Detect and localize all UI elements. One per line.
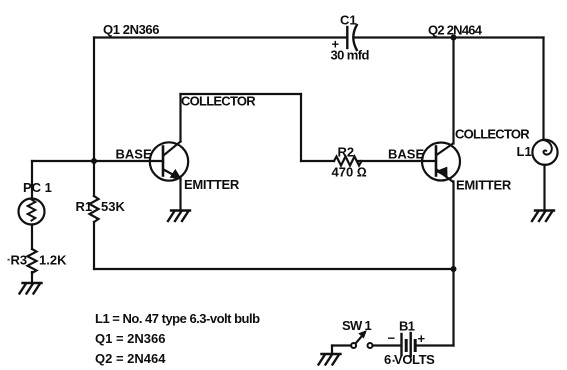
wire bottom rail xyxy=(94,268,454,270)
ground under lamp xyxy=(532,211,554,222)
svg-text:Q2 = 2N464: Q2 = 2N464 xyxy=(95,351,166,366)
ground under R3 xyxy=(20,283,42,294)
wire left rail (top corner down to base node) xyxy=(93,38,95,162)
stray scan mark xyxy=(8,259,10,261)
wire R1 upper lead xyxy=(93,161,95,196)
wire lamp lower lead xyxy=(543,165,545,209)
wire PC1 to R3 xyxy=(31,225,33,250)
wire Q2 emitter down to battery row xyxy=(452,182,454,346)
wire Q1 emitter lead xyxy=(179,179,181,210)
svg-text:1.2K: 1.2K xyxy=(39,253,67,268)
svg-text:B1: B1 xyxy=(399,319,415,334)
junction dot bottom rail / emitter rail xyxy=(451,266,457,272)
svg-text:EMITTER: EMITTER xyxy=(184,177,240,192)
svg-text:Q2 2N464: Q2 2N464 xyxy=(428,23,483,38)
wire switch ground stub xyxy=(331,346,333,354)
capacitor C1 xyxy=(347,25,357,50)
wire Q1 collector top run xyxy=(181,93,302,95)
wire Q1 base (from PC1 node to Q1) xyxy=(32,160,163,162)
svg-text:R1: R1 xyxy=(76,199,93,214)
wire Q2 collector riser xyxy=(452,38,454,144)
transistor Q2 xyxy=(422,143,460,182)
svg-text:Q1 = 2N366: Q1 = 2N366 xyxy=(95,331,165,346)
wire top rail right (C1 to right corner) xyxy=(354,36,544,38)
svg-text:L1: L1 xyxy=(517,144,532,159)
stray scan dot in 6 VOLTS xyxy=(393,360,395,362)
resistor R2 xyxy=(334,157,362,166)
svg-text:BASE: BASE xyxy=(116,147,152,162)
svg-text:−: − xyxy=(388,331,396,346)
wire R2 right lead (to Q2 base) xyxy=(357,160,436,162)
wire switch left lead xyxy=(332,344,351,346)
wire top rail left (Q1 top to C1) xyxy=(94,36,347,38)
wire Q1 collector riser xyxy=(179,94,181,142)
resistor R3 xyxy=(28,249,37,273)
svg-text:R3: R3 xyxy=(11,253,28,268)
svg-text:6 VOLTS: 6 VOLTS xyxy=(384,352,435,367)
svg-text:C1: C1 xyxy=(340,13,357,28)
svg-text:470 Ω: 470 Ω xyxy=(332,165,367,180)
wire right rail down to lamp xyxy=(542,38,544,141)
svg-text:EMITTER: EMITTER xyxy=(456,178,512,193)
lamp L1 xyxy=(532,140,557,165)
photocell PC1 xyxy=(19,199,45,225)
battery B1 xyxy=(402,333,416,356)
svg-text:PC 1: PC 1 xyxy=(23,180,52,195)
svg-text:30 mfd: 30 mfd xyxy=(331,48,370,63)
wire R1 lower lead xyxy=(93,222,95,269)
junction dot top rail / Q2 collector xyxy=(451,35,457,41)
ground under Q1 emitter xyxy=(168,211,190,222)
ground under switch xyxy=(319,354,341,365)
resistor R1 xyxy=(90,196,99,222)
junction dot Q1 base / left rail xyxy=(91,158,97,164)
svg-text:BASE: BASE xyxy=(388,147,424,162)
svg-text:SW 1: SW 1 xyxy=(342,318,371,333)
wire switch to battery xyxy=(373,344,400,346)
wire R2 left lead xyxy=(301,160,334,162)
svg-text:COLLECTOR: COLLECTOR xyxy=(181,94,256,109)
wire R3 lower lead xyxy=(31,272,33,282)
svg-text:Q1 2N366: Q1 2N366 xyxy=(103,22,159,37)
svg-text:COLLECTOR: COLLECTOR xyxy=(455,127,530,142)
switch SW1 xyxy=(351,331,372,348)
svg-text:+: + xyxy=(418,331,426,346)
transistor Q1 xyxy=(150,142,188,181)
wire PC1 upper lead xyxy=(31,161,33,199)
svg-text:L1 = No. 47 type 6.3-volt bulb: L1 = No. 47 type 6.3-volt bulb xyxy=(95,311,260,326)
svg-text:R2: R2 xyxy=(338,145,355,160)
wire battery to emitter rail xyxy=(417,344,454,346)
svg-text:53K: 53K xyxy=(101,199,125,214)
wire drop to R2 row xyxy=(300,94,302,161)
